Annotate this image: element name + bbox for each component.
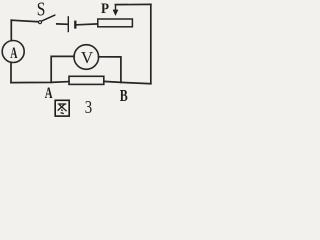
svg-text:P: P xyxy=(101,1,109,17)
wire left vertical upper xyxy=(10,20,12,40)
svg-text:V: V xyxy=(81,48,94,67)
rheostat P body xyxy=(98,19,133,27)
wire battery to rheostat xyxy=(77,23,98,26)
wire switch to battery xyxy=(57,23,68,25)
voltmeter V circle xyxy=(74,45,99,70)
resistor R body xyxy=(69,76,104,84)
svg-text:B: B xyxy=(120,86,128,105)
svg-text:A: A xyxy=(45,85,53,102)
rheostat slider arrow xyxy=(113,5,118,16)
svg-text:A: A xyxy=(10,45,17,62)
switch S xyxy=(39,15,55,24)
svg-text:3: 3 xyxy=(85,97,92,117)
ammeter A1 circle xyxy=(2,41,24,63)
wire left vertical lower xyxy=(10,63,12,83)
wire top-left horizontal xyxy=(11,20,37,22)
battery cell xyxy=(68,16,75,32)
svg-text:S: S xyxy=(37,0,46,21)
caption: hanzi tu (figure) drawn as strokes xyxy=(55,100,69,116)
wire right vertical xyxy=(150,4,152,83)
wire bottom right segment xyxy=(104,81,151,83)
wire voltmeter right lead xyxy=(99,57,121,83)
background xyxy=(0,0,156,119)
wire top right horizontal xyxy=(115,3,150,5)
wire voltmeter left lead xyxy=(51,56,74,82)
wire bottom left segment xyxy=(11,82,69,83)
